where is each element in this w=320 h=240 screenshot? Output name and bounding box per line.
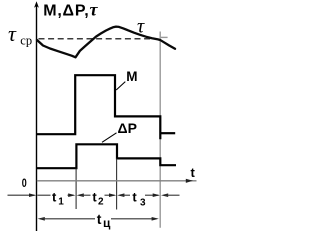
t2 left arrow [77,193,84,197]
svg-text:t: t [92,189,97,204]
M waveform [37,75,160,139]
M end stub [160,132,175,134]
y-axis arrowhead [34,1,39,8]
svg-text:t: t [132,189,137,204]
dP waveform [37,144,176,168]
tc segment right [111,218,157,220]
svg-text:ц: ц [103,216,111,230]
t3 right arrow [145,194,159,196]
svg-text:t: t [52,189,57,204]
svg-text:ср: ср [20,34,32,48]
svg-text:ΔP: ΔP [118,120,137,136]
svg-text:2: 2 [98,197,104,208]
t1 right arrow [68,194,74,196]
t3 left arrow [117,193,124,197]
thin divider x=116.6 [116,159,118,210]
outside-right arrow [161,193,168,197]
svg-text:1: 1 [58,196,64,207]
svg-text:3: 3 [140,198,146,209]
dashed average line [39,38,157,40]
time axis arrowhead [186,179,193,183]
outside-left arrow [8,194,35,196]
dP leader line [102,133,117,143]
svg-text:t: t [191,165,196,180]
svg-text:0: 0 [22,176,27,190]
svg-text:M: M [126,69,137,84]
M leader line [116,82,125,90]
tc right arrow [152,217,159,221]
t1 segment left [37,194,50,196]
t2 right arrow [105,194,115,196]
gray vertical line x=160 [159,32,161,228]
svg-text:M,ΔP,τ: M,ΔP,τ [43,0,98,20]
y-axis [36,4,38,231]
thin divider x=76 [75,169,77,210]
svg-text:t: t [97,211,102,227]
svg-text:τ: τ [8,21,17,46]
time axis [37,180,197,182]
svg-text:τ: τ [137,16,145,38]
tau curve [37,27,175,58]
gray tick at dashed level [161,36,168,38]
tc left arrow [38,217,45,221]
